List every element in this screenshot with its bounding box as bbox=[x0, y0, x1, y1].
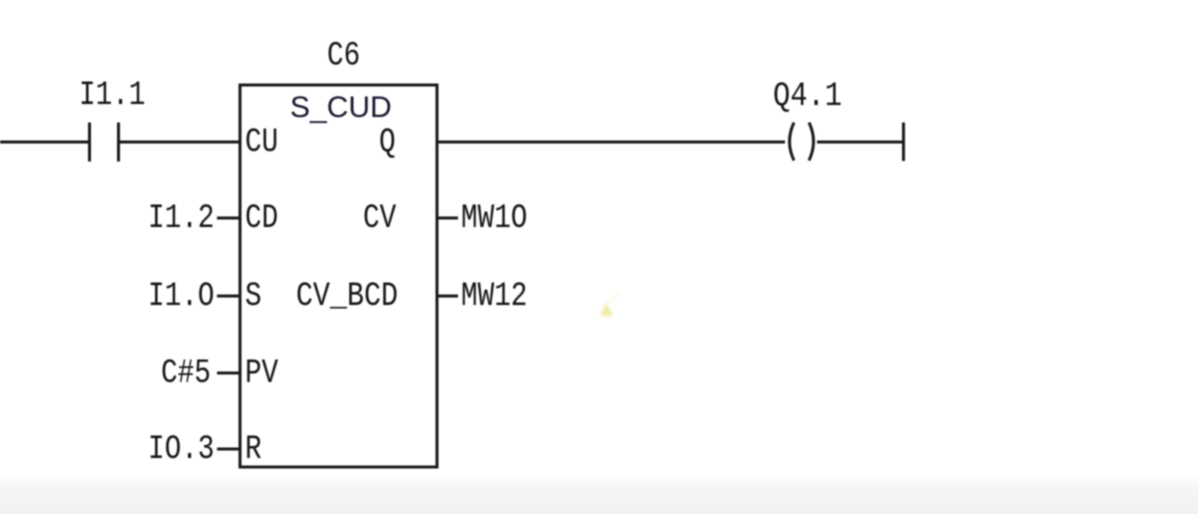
wire stub R input bbox=[217, 448, 240, 451]
right rail terminator bbox=[902, 123, 905, 162]
wire left rail to contact bbox=[0, 141, 88, 144]
wire coil to right rail bbox=[817, 141, 903, 144]
svg-text:I1.2: I1.2 bbox=[148, 200, 214, 238]
svg-text:C6: C6 bbox=[327, 38, 360, 76]
svg-text:IO.3: IO.3 bbox=[148, 431, 214, 469]
svg-text:S_CUD: S_CUD bbox=[290, 91, 392, 124]
wire stub CV output to MW10 bbox=[436, 217, 458, 220]
svg-text:R: R bbox=[245, 431, 262, 469]
coil Q4.1 left paren bbox=[790, 123, 795, 161]
coil Q4.1 right paren bbox=[809, 123, 814, 161]
wire stub CD input bbox=[217, 217, 240, 220]
svg-text:Q: Q bbox=[379, 124, 396, 162]
svg-text:CU: CU bbox=[245, 124, 278, 162]
svg-text:CV: CV bbox=[363, 200, 397, 238]
svg-text:MW12: MW12 bbox=[461, 278, 527, 316]
svg-text:PV: PV bbox=[245, 355, 279, 393]
svg-text:C#5: C#5 bbox=[161, 355, 211, 393]
wire stub CV_BCD output to MW12 bbox=[436, 295, 458, 298]
svg-text:Q4.1: Q4.1 bbox=[773, 78, 842, 116]
wire stub PV input bbox=[217, 372, 240, 375]
contact I1.1 left bar bbox=[88, 123, 91, 162]
wire Q output to coil bbox=[436, 141, 785, 144]
svg-text:I1.1: I1.1 bbox=[79, 77, 145, 115]
svg-text:S: S bbox=[245, 278, 262, 316]
svg-text:I1.O: I1.O bbox=[148, 278, 214, 316]
svg-text:MW1O: MW1O bbox=[461, 200, 527, 238]
svg-text:CD: CD bbox=[245, 200, 278, 238]
wire contact to block CU bbox=[120, 141, 240, 144]
cursor mark (pale yellow triangle) bbox=[600, 303, 613, 316]
counter block C6 box bbox=[240, 85, 437, 467]
svg-text:CV_BCD: CV_BCD bbox=[296, 278, 398, 316]
contact I1.1 right bar bbox=[117, 123, 120, 162]
wire stub S input bbox=[217, 295, 240, 298]
